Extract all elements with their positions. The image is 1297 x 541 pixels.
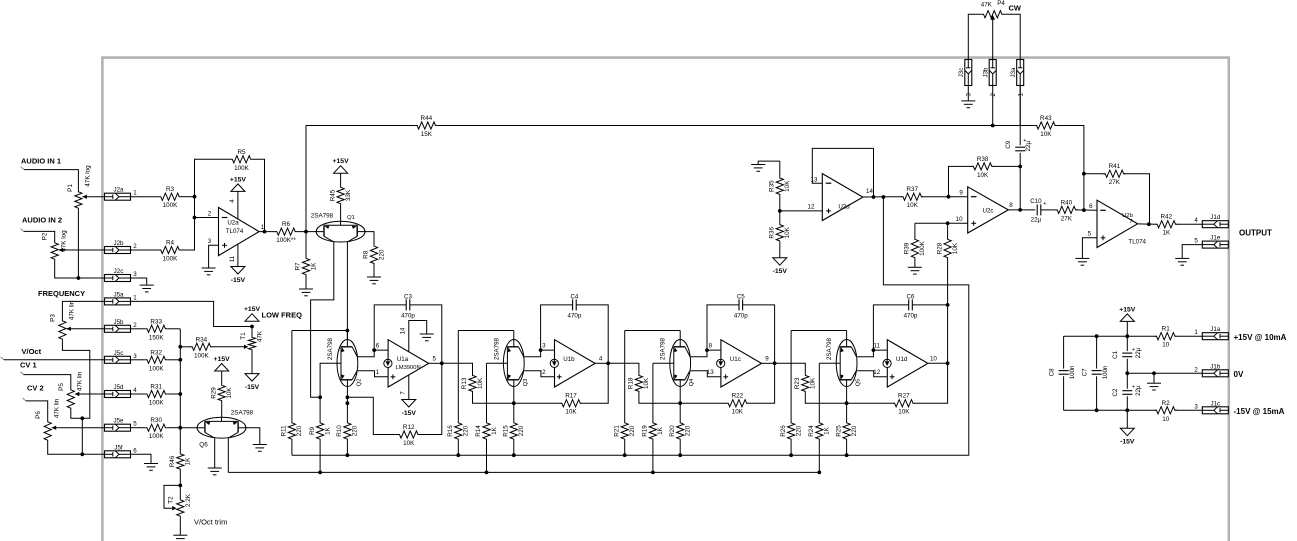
svg-text:10K: 10K [477, 377, 484, 389]
ground U2a pin3 [202, 268, 216, 275]
svg-text:J2a: J2a [114, 187, 125, 194]
svg-text:220: 220 [352, 425, 359, 436]
svg-text:9: 9 [959, 189, 963, 196]
svg-text:J1d: J1d [1210, 214, 1221, 221]
svg-text:C1: C1 [1112, 350, 1119, 358]
connector J5f [105, 451, 131, 458]
svg-text:10K: 10K [643, 377, 650, 389]
connector J5b [105, 325, 131, 332]
node U2d pin12 [778, 209, 782, 213]
trimmer T1 47K [251, 327, 253, 336]
resistor R8 220 [370, 244, 377, 265]
power -15V at T1 [245, 374, 259, 382]
wire T2 bottom to ground [179, 518, 181, 535]
resistor R1 10 [1155, 333, 1177, 340]
svg-text:U1c: U1c [730, 356, 741, 363]
svg-text:47K lin: 47K lin [77, 371, 84, 391]
ground R8 [367, 277, 381, 284]
wire Q6 right collector to rail B [227, 438, 229, 472]
node R38 left leg [947, 195, 951, 199]
svg-text:22µ: 22µ [1135, 385, 1142, 396]
node R9 on rail B [318, 471, 322, 475]
connector J1b [1202, 370, 1228, 377]
svg-text:100K: 100K [163, 256, 179, 263]
op-amp U1d LM3900N [887, 340, 928, 387]
svg-text:-15V: -15V [1120, 439, 1135, 446]
wire to U2d pin 12 [780, 210, 823, 212]
svg-text:J3c: J3c [958, 68, 965, 78]
wire R35/R36 node [779, 196, 781, 223]
wire R41 row [1084, 173, 1105, 175]
resistor R22 10K feedback [680, 402, 727, 404]
svg-text:100n: 100n [1102, 365, 1109, 379]
wire 0V row [1127, 372, 1202, 374]
svg-text:3: 3 [133, 353, 137, 360]
wire P6 wiper to J5e [57, 427, 104, 429]
wire Q1 right collector down [346, 242, 348, 339]
node R41 tap [1082, 172, 1086, 176]
node rail A feed [882, 195, 886, 199]
svg-text:J2b: J2b [114, 240, 125, 247]
svg-text:R42: R42 [1161, 214, 1173, 221]
wire U2d feedback loop [812, 148, 873, 197]
svg-text:100K: 100K [149, 400, 165, 407]
node R25 on rail A [845, 453, 849, 457]
svg-text:220: 220 [629, 425, 636, 436]
svg-text:2: 2 [208, 211, 212, 218]
node R10 on rail A [346, 453, 350, 457]
svg-text:R35: R35 [769, 180, 776, 192]
connector J2b [105, 247, 131, 254]
node P1/P2 bottom junction [77, 276, 81, 280]
svg-text:LM3900N: LM3900N [396, 365, 421, 371]
svg-text:R34: R34 [196, 336, 208, 343]
resistor R35 10K [779, 161, 781, 176]
ground R39 [908, 267, 922, 274]
svg-text:J5e: J5e [114, 418, 125, 425]
wire R18 to node B [639, 393, 680, 403]
svg-text:P3: P3 [50, 314, 57, 322]
svg-text:R31: R31 [150, 384, 162, 391]
svg-text:-15V: -15V [231, 277, 246, 284]
svg-text:J2c: J2c [114, 268, 124, 275]
resistor R45 33K [340, 206, 342, 222]
node Q2 top base junction [346, 329, 350, 333]
svg-text:4: 4 [133, 387, 137, 394]
wire J3b pin to R43/R44 row [992, 85, 994, 125]
svg-text:C10: C10 [1030, 198, 1042, 205]
svg-text:2: 2 [133, 322, 137, 329]
svg-text:Q3: Q3 [523, 379, 529, 387]
wire U2b output [1138, 223, 1157, 225]
resistor R29 10K [221, 371, 223, 384]
wire +15V row [1064, 335, 1157, 337]
node P3/P5 bottom junction [80, 416, 84, 420]
svg-text:R30: R30 [150, 417, 162, 424]
node B junction [678, 401, 682, 405]
resistor R30 100K [145, 424, 167, 431]
svg-text:R32: R32 [150, 349, 162, 356]
svg-text:100K: 100K [163, 202, 179, 209]
node stage output [606, 361, 610, 365]
svg-text:1K: 1K [824, 426, 831, 435]
svg-text:1K: 1K [310, 262, 317, 271]
node R30 junction [178, 426, 182, 430]
svg-text:R19: R19 [642, 425, 649, 437]
svg-text:C5: C5 [737, 294, 745, 301]
capacitor C2 22u [1126, 373, 1128, 388]
wire R37 to U2c pin 9 [922, 196, 967, 198]
potentiometer P3 47K lin [59, 319, 66, 341]
wire R5 to output [253, 159, 265, 231]
wire R34 to T1 wiper [212, 346, 244, 348]
svg-text:CW: CW [1009, 4, 1022, 13]
svg-text:10K: 10K [907, 202, 919, 209]
svg-text:-15V @ 15mA: -15V @ 15mA [1234, 407, 1285, 416]
svg-text:3: 3 [133, 271, 137, 278]
svg-text:R6: R6 [282, 221, 291, 228]
node R28 top [946, 221, 950, 225]
node R34 junction [178, 345, 182, 349]
svg-text:10: 10 [1162, 342, 1170, 349]
svg-text:P4: P4 [997, 0, 1005, 7]
wire J5c pin to R32 [131, 359, 146, 361]
svg-text:220: 220 [378, 249, 385, 260]
svg-text:R18: R18 [628, 377, 635, 389]
svg-text:P6: P6 [35, 411, 42, 419]
svg-text:R24: R24 [808, 425, 815, 437]
node C2 bottom [1125, 408, 1129, 412]
node C6 right leg junction [946, 303, 950, 307]
wire rail B (1K commons) [228, 471, 818, 473]
wire Q6 left collector to ground [214, 438, 216, 468]
svg-text:R33: R33 [150, 318, 162, 325]
wire P6 bottom [48, 442, 105, 454]
svg-text:33K: 33K [345, 189, 352, 201]
svg-text:100K: 100K [234, 165, 250, 172]
svg-text:2SA798: 2SA798 [311, 212, 334, 219]
svg-text:14: 14 [866, 188, 873, 195]
wire R43 to U2b pin6 column [1057, 126, 1084, 211]
svg-text:7: 7 [399, 391, 406, 395]
connector J3b [989, 60, 996, 86]
ground J5f [144, 464, 158, 471]
wire U2b pin 5 to ground [1082, 238, 1097, 259]
wire R30 to column [167, 427, 180, 429]
op-amp U1c LM3900N [721, 340, 762, 387]
wire R30 node to Q6 base [180, 427, 204, 429]
svg-text:R20: R20 [669, 425, 676, 437]
svg-text:C3: C3 [404, 294, 412, 301]
wire R31 to column [167, 393, 180, 395]
svg-text:R1: R1 [1162, 326, 1171, 333]
connector J5d [105, 391, 131, 398]
wire J5a pin 1 to T1 top [131, 301, 253, 326]
resistor R11 220 [291, 331, 293, 422]
svg-text:R29: R29 [210, 387, 217, 399]
wire R32 to column [167, 359, 180, 361]
svg-text:J5d: J5d [114, 384, 125, 391]
svg-text:C2: C2 [1112, 388, 1119, 396]
transistor Q5 2SA798 [836, 340, 857, 387]
resistor R41 27K [1103, 170, 1125, 177]
wire R44 row [306, 125, 415, 127]
svg-text:10: 10 [956, 216, 963, 223]
wire Q top collector to OTA input [691, 350, 721, 357]
potentiometer P4 47K resonance [982, 11, 1004, 18]
resistor R28 10K [947, 223, 949, 237]
connector J2c [105, 275, 131, 282]
wire rail A (220 commons) [292, 197, 969, 455]
wire CV2 to P6 top [23, 398, 26, 401]
node T2 top junction [178, 484, 182, 488]
wire emitter feed from 1K [653, 362, 674, 364]
wire R42 to J1d [1176, 223, 1202, 225]
ground J1e [1175, 258, 1189, 265]
svg-text:R10: R10 [336, 425, 343, 437]
node C9 / R38 junction [1018, 165, 1022, 169]
wire Q top base stub [513, 331, 515, 340]
svg-text:Q5: Q5 [856, 379, 862, 387]
connector J1e [1202, 241, 1228, 248]
resistor R2 10 [1155, 407, 1177, 414]
svg-text:10K: 10K [226, 387, 233, 399]
wire P2 wiper to J2b [64, 249, 104, 251]
wire OTA output [595, 362, 608, 364]
wire R28 down to C6 leg [947, 260, 949, 305]
ground Q6 collector [208, 468, 222, 475]
svg-text:J1c: J1c [1210, 400, 1220, 407]
wire J2c pin 3 to ground [131, 278, 147, 285]
wire stage input from previous output [608, 363, 639, 373]
wire R2 to J1c [1175, 409, 1202, 411]
resistor R13 10K [469, 374, 476, 394]
wire top base row to R26 [791, 330, 847, 332]
wire Q bottom collector to OTA + input [857, 371, 887, 377]
svg-text:R36: R36 [769, 227, 776, 239]
svg-text:J5a: J5a [114, 291, 125, 298]
svg-text:11: 11 [229, 255, 236, 262]
ground R7 [299, 289, 313, 296]
svg-text:R27: R27 [898, 393, 910, 400]
svg-text:2: 2 [542, 369, 546, 376]
svg-text:T2: T2 [168, 496, 175, 504]
connector J2a [105, 193, 131, 200]
wire Q6 right base to ground [239, 428, 260, 445]
wire U2d output [863, 196, 902, 198]
svg-text:R44: R44 [421, 115, 433, 122]
svg-text:R11: R11 [281, 425, 288, 437]
wire R8 to ground [373, 265, 375, 277]
capacitor C6 470p [873, 305, 908, 350]
svg-text:100K**: 100K** [276, 237, 296, 244]
ground R35 [751, 165, 765, 172]
svg-text:5: 5 [1194, 238, 1198, 245]
svg-text:2: 2 [1194, 366, 1198, 373]
power +15V arrow [1126, 321, 1128, 336]
wire node down to pin2 node [194, 197, 196, 218]
resistor R5 100K feedback [231, 156, 253, 163]
svg-text:R12: R12 [403, 424, 415, 431]
connector J5a [105, 298, 131, 305]
wire emitter feed from 1K [819, 362, 840, 364]
wire R38 leg up [949, 166, 973, 196]
svg-text:100K: 100K [194, 352, 210, 359]
node R20 on rail A [678, 453, 682, 457]
wire Q top collector to OTA input [524, 350, 554, 357]
transistor Q6 2SA798 [197, 417, 246, 438]
connector J3c [965, 60, 972, 86]
svg-text:10K: 10K [810, 377, 817, 389]
wire R40 to U2b pin 6 [1076, 209, 1097, 211]
svg-text:U2d: U2d [838, 204, 850, 211]
wire CV1 to P5 top [20, 372, 23, 375]
node R6/R7/R44 [304, 230, 308, 234]
node T1 top junction [250, 325, 254, 329]
svg-text:R5: R5 [237, 149, 246, 156]
resistor R31 100K [145, 390, 167, 397]
svg-text:TL074: TL074 [1128, 239, 1146, 246]
resistor R19 1K [652, 363, 654, 421]
svg-text:+15V: +15V [230, 176, 247, 183]
wire stage input from previous output [442, 363, 473, 373]
svg-text:V/Oct: V/Oct [22, 347, 42, 356]
resistor R3 100K [159, 193, 181, 200]
resistor R38 10K feedback [972, 163, 994, 170]
svg-text:U1a: U1a [397, 356, 409, 363]
wire U2a pin 3 to ground [209, 245, 219, 268]
wire J1e to ground [1182, 245, 1202, 259]
resistor R21 220 [624, 331, 626, 422]
node top input / cap leg [705, 348, 709, 352]
svg-text:220: 220 [463, 425, 470, 436]
transistor Q4 2SA798 [670, 340, 691, 387]
svg-text:-15V: -15V [402, 410, 417, 417]
power +15V U2a pin 4 [237, 191, 239, 219]
potentiometer P2 47K log [51, 241, 58, 261]
svg-text:R9: R9 [309, 426, 316, 435]
svg-text:1: 1 [1194, 329, 1198, 336]
op-amp U1a LM3900N [388, 340, 429, 387]
svg-text:10K: 10K [732, 409, 744, 416]
svg-text:5: 5 [133, 421, 137, 428]
svg-text:27K: 27K [1109, 179, 1121, 186]
capacitor C7 100n [1096, 336, 1098, 368]
wire top base row to R11 [292, 330, 348, 332]
svg-text:12: 12 [873, 369, 880, 376]
wire J5e pin to R30 [131, 427, 146, 429]
wire P1 wiper to J2a [88, 196, 105, 198]
svg-text:47K lin: 47K lin [68, 300, 75, 320]
wire J5f pin to ground [131, 454, 152, 463]
svg-text:47K: 47K [257, 330, 264, 342]
svg-text:8: 8 [709, 343, 713, 350]
node R16 on rail A [456, 453, 460, 457]
wire V/Oct to J5c [1, 357, 4, 360]
node B junction [845, 401, 849, 405]
connector J1c [1202, 407, 1228, 414]
potentiometer P5 47K lin [67, 388, 74, 410]
wire to U2a pin 2 [195, 217, 219, 219]
wire audio in 2 [21, 229, 24, 232]
wire P5 wiper to J5d [80, 393, 104, 395]
svg-text:47K log: 47K log [84, 165, 91, 187]
svg-text:R39: R39 [904, 242, 911, 254]
wire Q top base stub [346, 331, 348, 340]
wire junction to J2c [78, 277, 104, 279]
wire R3 to node [181, 196, 195, 198]
power +15V at T1 [245, 314, 259, 322]
wire P4 left to J3c [968, 14, 981, 59]
svg-text:LOW FREQ: LOW FREQ [262, 311, 303, 320]
svg-text:C8: C8 [1048, 368, 1055, 376]
svg-text:22µ: 22µ [1031, 217, 1042, 224]
resistor R43 10K [1035, 122, 1057, 129]
svg-text:J5c: J5c [114, 350, 124, 357]
wire R41 to U2b output [1124, 174, 1150, 225]
svg-text:+15V: +15V [214, 356, 231, 363]
resistor R14 1K [486, 363, 488, 421]
svg-text:1K: 1K [491, 426, 498, 435]
wire J2a pin to R3 [131, 196, 160, 198]
svg-text:11: 11 [873, 343, 880, 350]
node C1/C2 mid [1125, 371, 1129, 375]
wire R38 to C9 column [993, 165, 1021, 167]
resistor R25 220 [846, 403, 848, 421]
svg-text:AUDIO IN 1: AUDIO IN 1 [21, 157, 61, 166]
svg-text:J5f: J5f [114, 444, 123, 451]
node R24 on rail B [817, 471, 821, 475]
svg-text:2SA798: 2SA798 [826, 337, 833, 360]
resistor R40 27K [1041, 209, 1057, 211]
transistor Q1 2SA798 [316, 221, 365, 242]
svg-text:OUTPUT: OUTPUT [1239, 229, 1272, 238]
svg-text:3: 3 [966, 92, 973, 96]
svg-text:Q2: Q2 [356, 379, 362, 387]
resistor R39 100K [914, 223, 916, 237]
svg-text:R21: R21 [613, 425, 620, 437]
svg-text:+15V: +15V [1119, 306, 1136, 313]
wire 0V ground stem [1153, 373, 1155, 383]
svg-text:2: 2 [990, 92, 997, 96]
wire P2 bottom [55, 261, 79, 278]
wire Q bottom collector to OTA + input [358, 371, 388, 377]
svg-text:470p: 470p [401, 312, 415, 319]
svg-text:+15V: +15V [244, 306, 261, 313]
svg-text:10: 10 [930, 356, 937, 363]
svg-text:R26: R26 [780, 425, 787, 437]
svg-text:220: 220 [851, 425, 858, 436]
connector J5c [105, 356, 131, 363]
svg-text:+15V: +15V [333, 158, 350, 165]
wire R33 to column [167, 328, 180, 330]
svg-text:220: 220 [795, 425, 802, 436]
svg-text:R43: R43 [1040, 115, 1052, 122]
svg-text:TL074: TL074 [226, 228, 244, 235]
wire J5a tip to P3 top [62, 301, 104, 319]
potentiometer P6 47K lin [44, 420, 51, 442]
svg-text:P5: P5 [58, 383, 65, 391]
ground U2b pin5 [1075, 258, 1089, 265]
node 0V ground tap [1152, 371, 1156, 375]
wire P3 wiper to J5b [72, 328, 105, 330]
wire CV summing column [179, 329, 181, 452]
resistor R46 1K [177, 452, 184, 471]
svg-text:10K: 10K [565, 409, 577, 416]
svg-text:3: 3 [1194, 403, 1198, 410]
svg-text:R2: R2 [1162, 400, 1171, 407]
svg-text:U2a: U2a [227, 219, 239, 226]
